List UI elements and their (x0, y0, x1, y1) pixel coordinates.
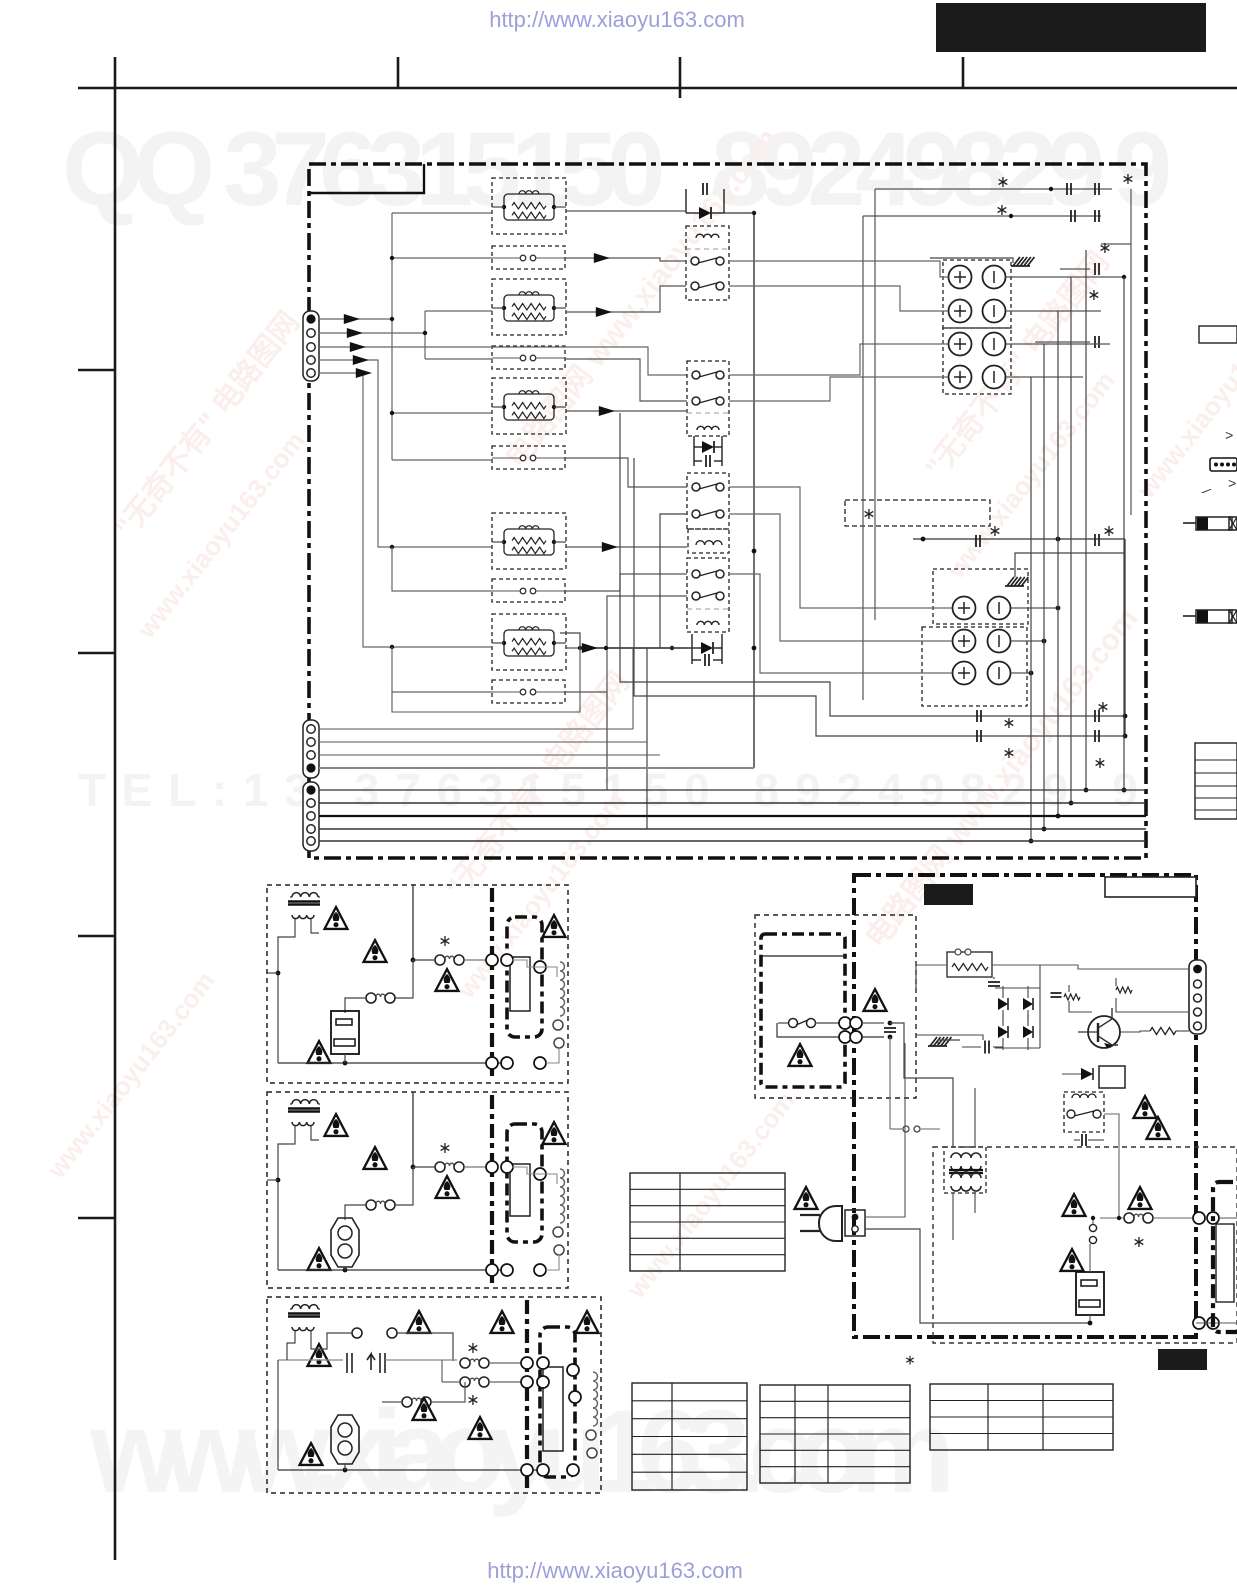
svg-text:∗: ∗ (1098, 240, 1111, 257)
resistor network top (947, 952, 992, 977)
AC wires (865, 1043, 905, 1217)
block dashed border (267, 1092, 568, 1288)
top tick marks (397, 57, 400, 88)
bus wires from CN3 (319, 789, 1146, 791)
ground symbol upper (1013, 257, 1020, 266)
svg-text:>: > (1225, 429, 1233, 445)
svg-text:http://www.xiaoyu163.com: http://www.xiaoyu163.com (487, 1558, 743, 1583)
dashed note box with star (845, 500, 990, 526)
jumper box JP4 (492, 579, 565, 602)
svg-text:∗: ∗ (904, 1351, 916, 1367)
AC plug (819, 1206, 842, 1241)
transistor Q1 (1088, 1016, 1120, 1048)
connector CN2 strip (303, 720, 319, 778)
T2 wires (974, 1088, 976, 1147)
relay RL3 (687, 473, 729, 529)
cap mid (984, 1041, 986, 1054)
vertical inductor (1089, 1224, 1096, 1231)
feedthrough circles (486, 954, 498, 966)
stepped gray wires to right (620, 413, 1125, 716)
power relay thick outline (761, 934, 845, 1087)
upper terminal output wires (729, 261, 948, 277)
B3 protector hexagon (331, 1415, 359, 1464)
top right capacitor row wires (875, 188, 1112, 190)
bottom table 3 (930, 1384, 1113, 1450)
svg-text:∗: ∗ (1093, 755, 1106, 772)
jumper box JP5 (492, 680, 565, 703)
feedthrough circles (486, 1161, 498, 1173)
cap C-top (988, 981, 1000, 983)
svg-text:∗: ∗ (1002, 745, 1015, 762)
lower terminal wires (729, 487, 952, 608)
resistor vertical (1116, 987, 1132, 993)
svg-text:∗: ∗ (466, 1340, 479, 1357)
transformer T2 dashed (944, 1147, 986, 1193)
relay coil box (688, 529, 729, 553)
white box after diode (1099, 1066, 1125, 1088)
svg-text:∗: ∗ (1132, 1234, 1145, 1251)
main block dash-dot border (309, 164, 1146, 858)
AC warning (795, 1187, 818, 1209)
svg-text:∗: ∗ (1087, 287, 1100, 304)
power switch inside (789, 1019, 798, 1028)
fuse symbol F1 right margin (1183, 522, 1196, 524)
mid vertical bus drops (560, 633, 580, 648)
divider dash-dot (490, 1095, 494, 1285)
svg-text:∗: ∗ (995, 202, 1008, 219)
power connector strip (1189, 960, 1206, 1034)
fuse symbol F2 right margin (1183, 615, 1196, 617)
top rule line (78, 87, 1237, 90)
wire to diode D3 row (580, 647, 692, 649)
inner fuse 2 (366, 993, 376, 1003)
relay RL-power (1064, 1092, 1104, 1132)
power table (630, 1173, 785, 1271)
protector (331, 1218, 359, 1267)
transformer (292, 893, 318, 897)
title block black rectangle (936, 3, 1206, 52)
block warning right (543, 1122, 566, 1144)
B3 bottom wire (278, 1469, 543, 1471)
relay RL4 (687, 558, 729, 632)
B3 fuse row 3 (402, 1397, 412, 1407)
svg-text:∗: ∗ (988, 523, 1001, 540)
power block white label box (1105, 877, 1196, 897)
power switch warnings (864, 989, 887, 1011)
B3 warning triangles (408, 1311, 431, 1333)
transformer leads (278, 919, 295, 1063)
feedthrough on relay outline and border (839, 1017, 851, 1029)
speaker outline bottom right (1213, 1182, 1237, 1332)
top-left feed verticals (874, 189, 876, 620)
resistor network RN2 (492, 279, 566, 335)
ground symbol lower (1007, 577, 1014, 586)
speaker assembly (507, 1124, 542, 1242)
diode/cap D3 (691, 634, 693, 664)
speaker terminal block lower (dashed) (933, 569, 1028, 624)
B3 switch contacts (352, 1328, 362, 1338)
center feed wires lower (565, 458, 687, 487)
right margin table (1195, 743, 1237, 819)
warning triangles (325, 1114, 348, 1136)
left margin vertical line (114, 57, 117, 1560)
RL1 input wires (565, 258, 686, 261)
bus wires from CN2 (319, 728, 633, 730)
block warning right (543, 915, 566, 937)
gray speaker wires (512, 960, 557, 977)
warning triangle low (308, 1248, 331, 1270)
jumper box JP2 (492, 346, 565, 369)
svg-text:http://www.xiaoyu163.com: http://www.xiaoyu163.com (489, 7, 745, 32)
connector CN3 strip (303, 782, 319, 851)
power switch box (777, 1023, 843, 1037)
resistor network RN4 (492, 513, 566, 569)
resistor network RN5 (492, 614, 566, 670)
relay outline inner line (762, 955, 845, 957)
resistor network RN1 (492, 178, 566, 234)
svg-text:∗: ∗ (996, 174, 1009, 191)
block dashed border (267, 885, 568, 1083)
svg-text:∗: ∗ (1102, 523, 1115, 540)
B3 transformer leads (277, 1360, 279, 1470)
relay RL1 with diode/cap (685, 189, 687, 213)
power block label black rect (924, 884, 973, 905)
divider dash-dot (490, 888, 494, 1080)
bottom table 1 (632, 1383, 747, 1490)
gray speaker wires (512, 1167, 557, 1184)
B3 feedthroughs (521, 1357, 533, 1369)
warning triangle low (308, 1041, 331, 1063)
warning triangles (325, 907, 348, 929)
bottom right black label (1158, 1349, 1207, 1370)
svg-text:>: > (1228, 477, 1236, 493)
speaker assembly (507, 917, 542, 1037)
dotted connector right margin (1210, 458, 1237, 471)
inner fuse 2 (366, 1200, 376, 1210)
right cap column vertical (1124, 539, 1126, 736)
output block B3 dashed border (267, 1297, 601, 1493)
B3 divider dash-dot (525, 1300, 529, 1490)
jumper box JP3 (492, 446, 565, 469)
bridge wires (995, 987, 1040, 989)
svg-text:∗: ∗ (1002, 715, 1015, 732)
AC inlet box (845, 1210, 865, 1236)
power block dash-dot border (854, 875, 1196, 1337)
B3 speaker assembly (540, 1327, 575, 1477)
B3 fuse row 2 (460, 1377, 470, 1387)
ground symbol power (930, 1037, 937, 1046)
diode D-power (1081, 1068, 1093, 1080)
fuse on output (412, 885, 414, 960)
dashed sub-block wide (933, 1147, 1237, 1343)
protector (331, 1011, 359, 1054)
speaker terminal block upper (dashed) (943, 260, 1011, 328)
transformer (292, 1100, 318, 1104)
lower right fuse (1063, 1194, 1086, 1216)
B3 warnings right (491, 1311, 514, 1333)
center vertical wire (753, 213, 755, 768)
resistor to connector (1150, 1028, 1176, 1035)
CN1 pin wires with arrows (319, 318, 392, 320)
cap below relay (1081, 1134, 1083, 1146)
power wires (1039, 965, 1041, 1048)
right vertical drops (1030, 377, 1032, 841)
jumper small (903, 1126, 909, 1132)
lower capacitor rows (913, 538, 1125, 540)
svg-text:∗: ∗ (1096, 699, 1109, 716)
left margin tick marks (78, 369, 115, 372)
relay RL2 (687, 361, 729, 436)
svg-text:∗: ∗ (466, 1392, 479, 1409)
label box right margin (1199, 326, 1237, 343)
upper terminal right wires (1006, 276, 1124, 278)
jumper box JP1 (492, 246, 565, 269)
svg-text:∗: ∗ (438, 1140, 451, 1157)
protector lamp power (1076, 1272, 1104, 1315)
svg-text:∗: ∗ (862, 506, 875, 523)
resistor network RN3 (492, 378, 566, 434)
bottom wire (278, 1062, 507, 1064)
bridge rectifier diodes (998, 998, 1008, 1010)
diode/cap D2 (693, 436, 695, 466)
connector CN1 (input strip) (303, 311, 319, 381)
fuse on output (412, 1092, 414, 1167)
main block notch rectangle (309, 164, 424, 193)
B3 wires mid (278, 1359, 343, 1361)
power block bottom feeds (1193, 1212, 1205, 1224)
bottom wire (278, 1269, 507, 1271)
warnings upper right of fuse (1134, 1096, 1157, 1118)
svg-text:www.xiaoyu163.com: www.xiaoyu163.com (89, 1386, 955, 1518)
power block inner dashed box (755, 915, 916, 1098)
svg-text:∗: ∗ (1121, 171, 1134, 188)
capacitor after switch (862, 1022, 884, 1024)
bottom table 2 (760, 1385, 910, 1483)
B3 transformer (292, 1305, 318, 1309)
right vertical cap column (1130, 189, 1132, 515)
svg-text:∗: ∗ (438, 933, 451, 950)
RL2 input wires (565, 359, 687, 401)
transformer leads (278, 1126, 295, 1270)
cap and zener (1051, 992, 1062, 994)
B3 fuse row 1 (460, 1358, 470, 1368)
B3 power switch (346, 1353, 348, 1373)
